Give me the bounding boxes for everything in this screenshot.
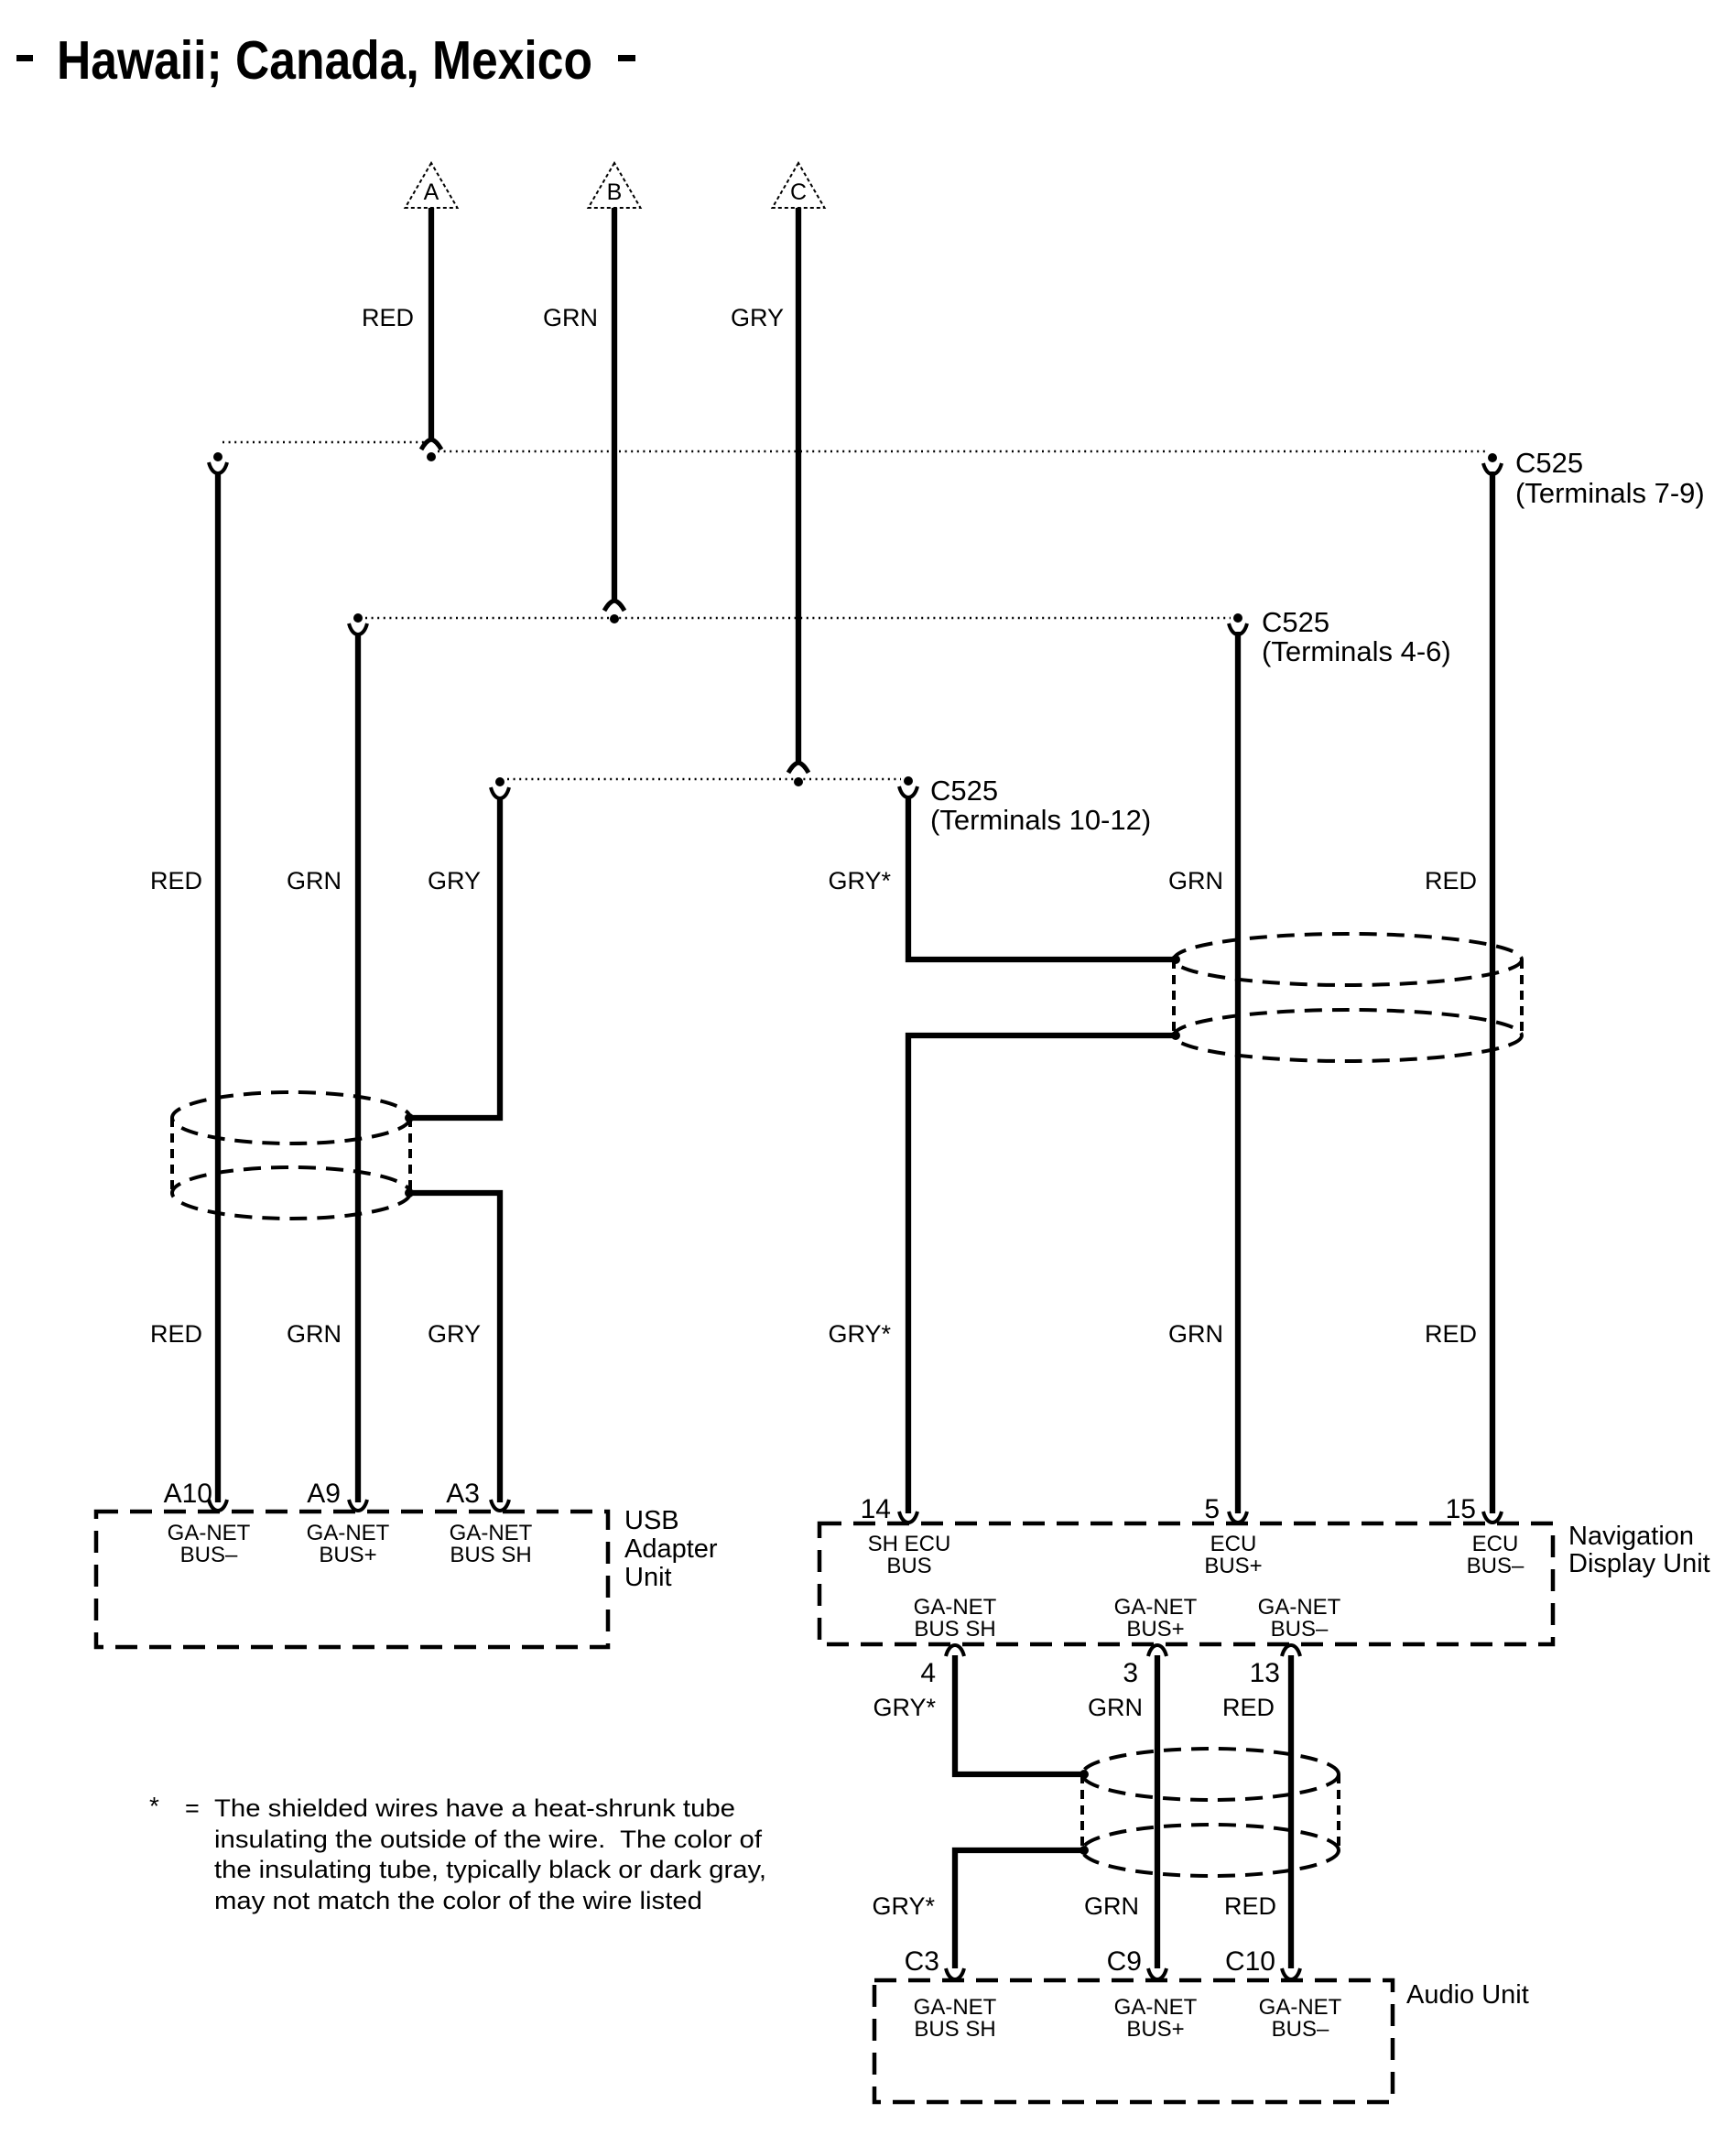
terminal 5 ECU BUS+ [1204, 1494, 1262, 1578]
svg-text:BUS–: BUS– [180, 1543, 238, 1567]
wire RED from terminal 13 to C10 [1222, 1655, 1291, 1968]
terminal 3 GA-NET BUS+ bottom [1114, 1595, 1198, 1688]
wire GRY* from terminal 4 to C3 with shield jog [872, 1655, 1084, 1968]
svg-text:C9: C9 [1107, 1946, 1142, 1977]
terminal cup left RED row 1 [209, 462, 227, 473]
svg-text:Hawaii; Canada, Mexico: Hawaii; Canada, Mexico [57, 30, 592, 91]
wire A RED from triangle A [362, 208, 441, 450]
shield bottom cylinder around GRN RED [1082, 1749, 1339, 1876]
svg-text:GA-NET: GA-NET [1259, 1995, 1342, 2020]
svg-text:BUS+: BUS+ [1204, 1554, 1262, 1578]
USB Adapter Unit box [96, 1506, 718, 1647]
svg-text:ECU: ECU [1472, 1532, 1519, 1556]
svg-text:A3: A3 [446, 1479, 480, 1509]
svg-text:GRN: GRN [1088, 1694, 1143, 1721]
wire GRN from terminal 3 to C9 [1084, 1655, 1157, 1968]
svg-text:C525: C525 [930, 775, 998, 807]
svg-text:SH ECU: SH ECU [868, 1532, 951, 1556]
node shield bottom bottom dot [1080, 1846, 1089, 1855]
node shield left top dot [405, 1113, 414, 1122]
shield left cylinder around RED GRN [172, 1092, 410, 1219]
node wire A terminal dot row 1 [427, 452, 436, 461]
svg-text:(Terminals 7-9): (Terminals 7-9) [1515, 477, 1705, 509]
svg-text:(Terminals 4-6): (Terminals 4-6) [1262, 635, 1451, 667]
svg-text:ECU: ECU [1210, 1532, 1257, 1556]
svg-text:GA-NET: GA-NET [1258, 1595, 1341, 1620]
svg-text:Navigation: Navigation [1568, 1522, 1694, 1551]
wire RED right vertical to terminal 15 [1425, 471, 1492, 1513]
terminal 14 SH ECU BUS [861, 1494, 951, 1578]
svg-text:GRN: GRN [1168, 1320, 1223, 1348]
title Hawaii; Canada, Mexico [16, 30, 635, 91]
svg-text:GRN: GRN [1168, 867, 1223, 894]
svg-text:BUS SH: BUS SH [450, 1543, 531, 1567]
terminal A9 [307, 1479, 390, 1567]
node wire C terminal dot row 3 [794, 777, 803, 786]
node shield bottom top dot [1080, 1770, 1089, 1779]
wire C GRY from triangle C [731, 208, 808, 773]
connector C525 terminals 10-12 dotted line row 3 [507, 778, 901, 780]
svg-text:GRY: GRY [428, 1320, 481, 1348]
Audio Unit box [874, 1980, 1529, 2102]
svg-text:5: 5 [1204, 1494, 1220, 1524]
terminal cup left GRN row 2 [349, 623, 367, 634]
svg-text:GRY*: GRY* [872, 1892, 935, 1920]
connector C525 terminals 7-9 dotted line row 1 [222, 442, 1485, 451]
label C525 terminals 10-12 [930, 775, 1151, 836]
node shield right bottom dot [1171, 1031, 1180, 1040]
svg-text:*: * [149, 1792, 159, 1820]
svg-text:USB: USB [624, 1506, 679, 1535]
svg-text:3: 3 [1123, 1658, 1138, 1688]
node right GRN terminal dot row 2 C525 [1233, 613, 1242, 623]
svg-text:insulating the outside of the: insulating the outside of the wire. The … [214, 1826, 763, 1853]
svg-text:GA-NET: GA-NET [1114, 1995, 1198, 2020]
svg-text:C525: C525 [1262, 606, 1329, 638]
svg-text:GA-NET: GA-NET [307, 1521, 390, 1545]
svg-text:C525: C525 [1515, 447, 1583, 479]
svg-text:B: B [607, 179, 623, 205]
node left GRN terminal dot row 2 [353, 613, 363, 623]
svg-text:RED: RED [1222, 1694, 1275, 1721]
svg-text:(Terminals 10-12): (Terminals 10-12) [930, 804, 1151, 836]
terminal cup left GRY row 3 [491, 787, 509, 798]
svg-text:may not match the color of the: may not match the color of the wire list… [214, 1887, 702, 1914]
svg-text:The shielded wires have a heat: The shielded wires have a heat-shrunk tu… [214, 1794, 735, 1822]
node wire B terminal dot row 2 [610, 614, 619, 623]
wire B GRN from triangle B [543, 208, 624, 611]
svg-text:GRY*: GRY* [828, 1320, 891, 1348]
connector triangle A [406, 163, 458, 208]
node shield right top dot [1171, 955, 1180, 964]
svg-text:BUS: BUS [886, 1554, 931, 1578]
svg-text:=: = [185, 1794, 200, 1822]
node left GRY terminal dot row 3 [495, 777, 505, 786]
svg-text:RED: RED [150, 1320, 202, 1348]
wire GRN right vertical to terminal 5 [1168, 632, 1238, 1513]
svg-text:A9: A9 [307, 1479, 341, 1509]
terminal C3 GA-NET BUS SH [905, 1946, 997, 2042]
svg-text:13: 13 [1250, 1658, 1280, 1688]
node left RED terminal dot row 1 [213, 452, 222, 461]
svg-text:GRN: GRN [543, 304, 598, 331]
shield right cylinder around GRN RED [1174, 934, 1522, 1061]
svg-text:the insulating tube, typically: the insulating tube, typically black or … [214, 1856, 766, 1883]
svg-text:GA-NET: GA-NET [450, 1521, 533, 1545]
terminal A10 [164, 1479, 251, 1567]
svg-text:BUS–: BUS– [1272, 2017, 1329, 2042]
wire GRN left vertical to A9 [287, 633, 358, 1502]
node right RED terminal dot row 1 C525 [1488, 453, 1497, 462]
svg-text:A10: A10 [164, 1479, 212, 1509]
svg-text:Display Unit: Display Unit [1568, 1549, 1710, 1578]
svg-text:RED: RED [1425, 867, 1477, 894]
svg-text:C10: C10 [1225, 1946, 1275, 1977]
svg-text:C3: C3 [905, 1946, 939, 1977]
svg-text:GA-NET: GA-NET [914, 1595, 997, 1620]
terminal C10 GA-NET BUS- [1225, 1946, 1342, 2042]
svg-text:GRN: GRN [1084, 1892, 1139, 1920]
svg-text:BUS SH: BUS SH [914, 2017, 995, 2042]
svg-text:4: 4 [920, 1658, 936, 1688]
terminal 13 GA-NET BUS- bottom [1250, 1595, 1341, 1688]
wire GRY* right vertical with shield jog [828, 796, 1176, 1513]
svg-text:GRY: GRY [731, 304, 784, 331]
svg-text:RED: RED [362, 304, 414, 331]
terminal cup right RED row 1 [1483, 463, 1502, 474]
svg-text:GRN: GRN [287, 867, 342, 894]
svg-text:A: A [424, 179, 439, 205]
label C525 terminals 7-9 [1515, 447, 1705, 509]
svg-text:GA-NET: GA-NET [1114, 1595, 1198, 1620]
svg-text:14: 14 [861, 1494, 891, 1524]
terminal cup right GRN row 2 [1229, 623, 1247, 634]
svg-text:RED: RED [1224, 1892, 1276, 1920]
svg-text:GRY: GRY [428, 867, 481, 894]
wire GRY left vertical to A3 with shield jog [409, 797, 500, 1502]
svg-text:BUS–: BUS– [1271, 1617, 1329, 1642]
terminal 15 ECU BUS- [1446, 1494, 1524, 1578]
svg-text:BUS+: BUS+ [1126, 2017, 1184, 2042]
terminal 4 GA-NET BUS SH bottom [914, 1595, 997, 1688]
svg-text:GRY*: GRY* [873, 1694, 936, 1721]
footnote asterisk note [149, 1792, 766, 1914]
Navigation Display Unit box [819, 1522, 1710, 1644]
node GRY* terminal dot row 3 C525 [904, 776, 913, 786]
terminal A3 [446, 1479, 532, 1567]
connector triangle C [773, 163, 825, 208]
svg-text:15: 15 [1446, 1494, 1476, 1524]
svg-text:Unit: Unit [624, 1563, 672, 1592]
svg-text:GA-NET: GA-NET [914, 1995, 997, 2020]
wire RED left vertical to A10 [150, 471, 218, 1502]
svg-text:C: C [790, 179, 807, 205]
connector triangle B [589, 163, 641, 208]
terminal cup GRY* row 3 [899, 786, 917, 797]
label C525 terminals 4-6 [1262, 606, 1451, 667]
svg-text:BUS SH: BUS SH [914, 1617, 995, 1642]
svg-text:RED: RED [150, 867, 202, 894]
svg-text:BUS+: BUS+ [1126, 1617, 1184, 1642]
svg-text:GRN: GRN [287, 1320, 342, 1348]
svg-text:BUS–: BUS– [1467, 1554, 1524, 1578]
svg-text:Adapter: Adapter [624, 1534, 718, 1564]
terminal C9 GA-NET BUS+ [1107, 1946, 1198, 2042]
svg-text:GRY*: GRY* [828, 867, 891, 894]
svg-text:RED: RED [1425, 1320, 1477, 1348]
svg-text:Audio Unit: Audio Unit [1406, 1980, 1529, 2010]
node shield left bottom dot [405, 1188, 414, 1198]
connector C525 terminals 4-6 dotted line row 2 [365, 617, 1231, 619]
svg-text:GA-NET: GA-NET [168, 1521, 251, 1545]
svg-text:BUS+: BUS+ [319, 1543, 376, 1567]
